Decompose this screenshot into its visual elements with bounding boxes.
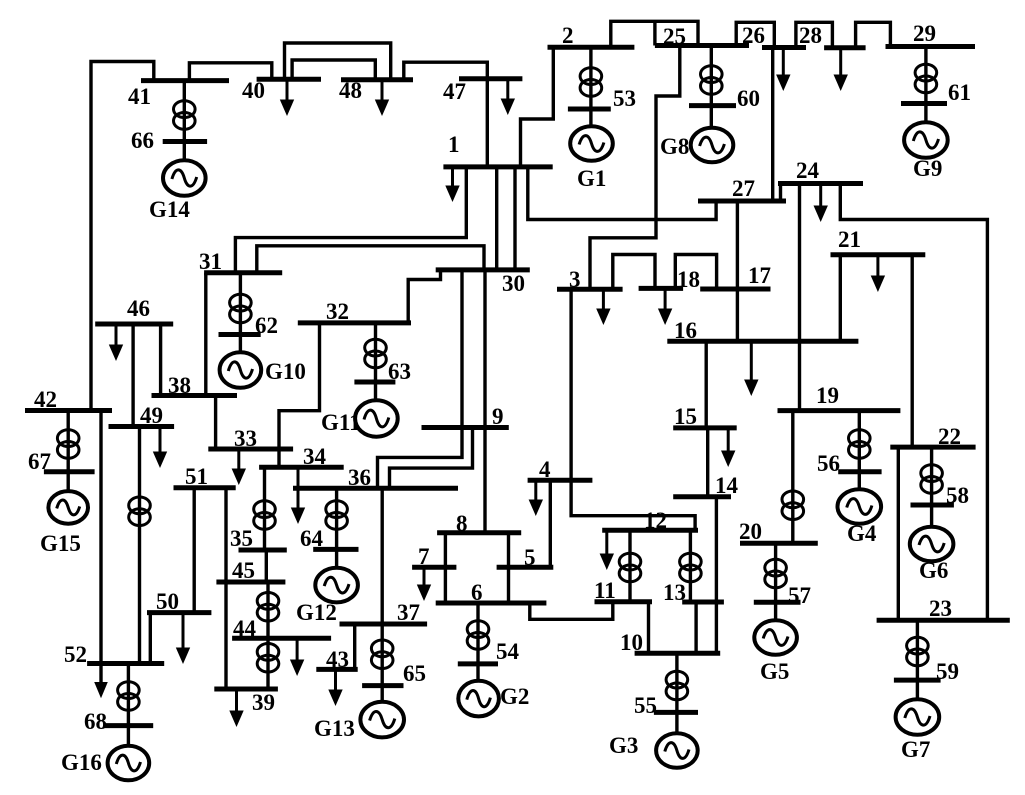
load arrow bus33: [232, 449, 246, 485]
wire 30-9-8 vertical: [483, 270, 486, 533]
svg-text:G16: G16: [61, 750, 102, 775]
svg-text:6: 6: [471, 580, 483, 605]
bus 54 bar: [458, 661, 498, 666]
wire 32-33-34 step: [279, 323, 320, 467]
svg-text:47: 47: [443, 79, 466, 104]
wire 2-53-G1 column: [589, 47, 592, 127]
wire 45-44 column: [266, 582, 269, 638]
svg-text:59: 59: [936, 659, 959, 684]
bus 45 bar: [216, 580, 285, 585]
wire 2-1 link: [521, 47, 554, 167]
load arrow bus40: [280, 79, 294, 116]
bus 67 bar: [44, 469, 95, 474]
bus 13 bar: [682, 600, 724, 605]
wire 21-22 vertical: [911, 255, 914, 447]
svg-text:28: 28: [799, 23, 822, 48]
generator G2: [458, 681, 499, 717]
svg-text:18: 18: [677, 267, 700, 292]
svg-text:10: 10: [620, 630, 643, 655]
bus 61 bar: [901, 101, 947, 106]
svg-text:60: 60: [737, 86, 760, 111]
wire 3-18 link: [613, 255, 655, 290]
wire 20-57-G5 column: [774, 543, 777, 621]
svg-text:33: 33: [234, 426, 257, 451]
bus 1 bar: [443, 164, 552, 169]
svg-text:23: 23: [929, 596, 952, 621]
transformer 62: [230, 294, 252, 323]
wire 12-11 column: [628, 530, 631, 601]
load arrow bus49: [153, 427, 167, 469]
load arrow bus43: [328, 669, 342, 706]
load arrow bus4: [529, 480, 543, 516]
wire 42-67-G15 column: [66, 411, 69, 493]
bus 31 bar: [204, 270, 282, 275]
wire 31-1 line: [235, 167, 466, 273]
generator G14: [163, 160, 206, 196]
wire 27-24 vertical: [779, 184, 782, 202]
load arrow bus1: [445, 167, 459, 202]
svg-text:2: 2: [562, 23, 574, 48]
bus 19 bar: [778, 408, 901, 413]
bus 65 bar: [362, 683, 403, 688]
wire 16-15 vertical: [705, 341, 708, 428]
svg-text:61: 61: [948, 80, 971, 105]
bus 29 bar: [886, 44, 976, 49]
transformer 65: [371, 640, 393, 669]
load arrow bus48: [375, 80, 389, 116]
bus 56 bar: [838, 469, 881, 474]
wire 29-61-G9 column: [924, 47, 927, 124]
svg-text:14: 14: [715, 473, 739, 498]
transformer 45-44: [257, 592, 279, 621]
bus 4 bar: [528, 478, 593, 483]
bus 6 bar: [436, 601, 547, 606]
transformer 55: [666, 671, 688, 700]
bus 68 bar: [104, 723, 154, 728]
bus 66 bar: [163, 139, 207, 144]
bus 14 bar: [673, 494, 731, 499]
transformer 53: [580, 68, 602, 97]
svg-text:12: 12: [644, 508, 667, 533]
bus 5 bar: [497, 565, 554, 570]
wire 32-63-G11 column: [374, 323, 377, 401]
wire 24-16-19 vertical: [798, 184, 801, 411]
svg-text:56: 56: [817, 451, 840, 476]
svg-text:G9: G9: [913, 156, 942, 181]
transformer 19-20: [782, 491, 804, 520]
transformer 63: [365, 339, 387, 368]
svg-text:21: 21: [838, 227, 861, 252]
wire 31-62-G10 column: [239, 273, 242, 353]
bus 59 bar: [894, 678, 941, 683]
bus 48 bar: [341, 77, 413, 82]
wire 12-13 column: [689, 530, 692, 602]
svg-text:40: 40: [242, 78, 265, 103]
svg-text:30: 30: [502, 271, 525, 296]
svg-text:46: 46: [127, 296, 150, 321]
wire 49-52 column: [138, 427, 141, 664]
wire 30-36 step: [378, 270, 463, 488]
wire 36-37-65-G13 column: [381, 488, 384, 702]
wire 41-42 corner + left vertical: [91, 62, 154, 411]
load arrow bus15: [721, 428, 735, 467]
bus 51 bar: [174, 485, 236, 490]
svg-text:49: 49: [140, 403, 163, 428]
bus 52 bar: [87, 661, 164, 666]
bus 64 bar: [313, 547, 358, 552]
wire 1-30 vertical b: [513, 167, 516, 270]
bus 47 bar: [459, 76, 522, 81]
wire 41-66-G14 column: [183, 81, 186, 161]
svg-text:9: 9: [492, 404, 504, 429]
svg-text:G7: G7: [901, 737, 930, 762]
wire 36-64-G12 column: [335, 488, 338, 568]
bus 16 bar: [667, 339, 858, 344]
wire 10-55-G3 column: [675, 653, 678, 733]
svg-text:G5: G5: [760, 659, 789, 684]
bus 40 bar: [257, 77, 321, 82]
svg-text:13: 13: [663, 580, 686, 605]
generator G1: [570, 126, 613, 161]
svg-text:51: 51: [185, 464, 208, 489]
load arrow bus50: [176, 613, 190, 664]
load arrow bus28: [834, 48, 848, 91]
svg-text:G13: G13: [314, 716, 355, 741]
svg-text:5: 5: [524, 545, 536, 570]
transformer 12-13: [680, 553, 702, 582]
generator G15: [48, 491, 88, 524]
svg-text:G1: G1: [577, 166, 606, 191]
svg-text:66: 66: [131, 128, 154, 153]
load arrow bus26: [776, 48, 790, 92]
load arrow bus47: [501, 79, 515, 115]
transformer 35: [254, 501, 276, 530]
load arrow bus39: [229, 689, 243, 727]
svg-text:4: 4: [539, 457, 551, 482]
svg-text:G4: G4: [847, 521, 877, 546]
bus 57 bar: [754, 600, 801, 605]
wire 11-10 vertical: [647, 602, 650, 654]
bus 20 bar: [740, 541, 818, 546]
load arrow bus52 head: [94, 682, 108, 698]
load arrow bus3: [596, 289, 610, 325]
wire 31-38 vertical: [204, 273, 207, 396]
generator G10: [220, 352, 262, 388]
svg-text:G3: G3: [609, 733, 638, 758]
svg-text:55: 55: [634, 693, 657, 718]
bus 18 bar: [639, 286, 684, 291]
bus 49 bar: [109, 424, 175, 429]
bus 10 bar: [635, 651, 721, 656]
svg-text:65: 65: [403, 661, 426, 686]
svg-text:29: 29: [913, 21, 936, 46]
load arrow bus18: [658, 288, 672, 325]
load arrow bus12: [600, 530, 614, 570]
svg-text:G11: G11: [321, 410, 361, 435]
wire 34-35 column: [263, 467, 266, 550]
bus 62 bar: [219, 332, 261, 337]
wire 13-10 vertical: [694, 602, 697, 653]
transformer 44-39: [257, 643, 279, 672]
bus 3 bar: [557, 287, 623, 292]
bus 26 bar: [762, 45, 806, 50]
bus 50 bar: [147, 610, 211, 615]
svg-text:41: 41: [128, 84, 151, 109]
wire 30-32 step: [408, 270, 440, 323]
svg-text:3: 3: [569, 267, 581, 292]
svg-text:32: 32: [326, 299, 349, 324]
bus 8 bar: [437, 530, 521, 535]
svg-text:G14: G14: [149, 197, 190, 222]
generator G9: [904, 122, 948, 158]
bus 60 bar: [689, 103, 736, 108]
wire 4-5 vertical: [549, 480, 552, 567]
bus 11 bar: [595, 599, 653, 604]
wire 26-28 link: [796, 22, 833, 47]
svg-text:G10: G10: [265, 359, 306, 384]
svg-text:24: 24: [796, 158, 820, 183]
wire 3-4-12 line: [571, 289, 695, 530]
wire 14-13-10 vertical: [715, 497, 718, 653]
bus 12 bar: [602, 528, 698, 533]
svg-text:17: 17: [748, 263, 771, 288]
wire 24-23 line: [840, 184, 987, 621]
generator G13: [360, 702, 404, 738]
bus 46 bar: [95, 322, 173, 327]
bus 55 bar: [654, 710, 698, 715]
svg-text:64: 64: [300, 526, 324, 551]
svg-text:20: 20: [739, 519, 762, 544]
bus 34 bar: [259, 465, 344, 470]
generator G8: [691, 128, 734, 163]
transformer 57: [765, 559, 787, 588]
bus 43 bar: [316, 667, 357, 672]
wire 40-48 outer link: [285, 43, 391, 80]
bus 37 bar: [340, 622, 428, 627]
svg-text:45: 45: [232, 558, 255, 583]
svg-text:15: 15: [674, 404, 697, 429]
generator G12: [315, 568, 358, 603]
bus 33 bar: [208, 447, 293, 452]
generator G6: [910, 527, 954, 562]
wire 51-50 vertical: [192, 488, 195, 613]
svg-text:G2: G2: [500, 684, 529, 709]
svg-text:1: 1: [448, 132, 460, 157]
wire 8-7-6 vertical: [444, 533, 447, 603]
transformer 68: [118, 682, 140, 711]
svg-text:G12: G12: [296, 600, 337, 625]
svg-text:G15: G15: [40, 531, 81, 556]
svg-text:25: 25: [663, 24, 686, 49]
transformer 54: [467, 621, 489, 650]
wire 1-30 vertical a: [495, 167, 498, 270]
bus 17 bar: [700, 287, 770, 292]
bus 27 bar: [698, 199, 786, 204]
svg-text:52: 52: [64, 642, 87, 667]
wire 22-58-G6 column: [930, 447, 933, 527]
wire 8-5-6 vertical: [507, 533, 510, 603]
svg-text:62: 62: [255, 313, 278, 338]
bus 23 bar: [877, 618, 1010, 623]
wire 41-40 link: [189, 63, 271, 81]
transformer 12-11: [619, 553, 641, 582]
transformer 59: [907, 637, 929, 666]
wire 25-26 link: [736, 22, 774, 47]
svg-text:67: 67: [28, 449, 51, 474]
wire 51-45-39 vertical: [224, 488, 227, 689]
wire 19-20 column: [791, 411, 794, 544]
wire 2-25 link: [611, 21, 698, 47]
wire 48-47-1 link: [404, 62, 488, 167]
wire 31-30 line: [257, 246, 484, 273]
wire 46-38 vertical: [159, 324, 162, 396]
bus 39 bar: [214, 687, 278, 692]
bus 38 bar: [152, 393, 238, 398]
svg-text:34: 34: [303, 444, 327, 469]
load arrow bus34: [291, 467, 305, 524]
wire 28-29 link: [856, 22, 891, 47]
svg-text:54: 54: [496, 639, 520, 664]
wire 44-39 column: [266, 638, 269, 689]
bus 22 bar: [890, 445, 975, 450]
svg-text:7: 7: [418, 544, 430, 569]
bus 7 bar: [412, 565, 456, 570]
generator G7: [896, 699, 940, 735]
svg-text:G8: G8: [660, 134, 689, 159]
svg-text:19: 19: [816, 383, 839, 408]
bus 44 bar: [232, 636, 331, 641]
transformer 58: [921, 465, 943, 494]
wire 27-17-16 vertical: [736, 201, 739, 341]
wire 42-52 vertical + load: [99, 411, 102, 683]
load arrow bus44: [290, 638, 304, 676]
svg-text:68: 68: [84, 709, 107, 734]
load arrow bus46: [109, 324, 123, 361]
svg-text:31: 31: [199, 249, 222, 274]
bus 32 bar: [298, 320, 411, 325]
generator G3: [656, 733, 698, 768]
bus 36 bar: [293, 486, 458, 491]
generator G5: [754, 620, 797, 655]
wire 40-48 inner link: [292, 60, 375, 80]
wire 9-36 step: [390, 428, 473, 489]
wire 25 box left: [653, 21, 656, 45]
transformer 64: [326, 501, 348, 530]
bus 58 bar: [911, 503, 954, 508]
bus 30 bar: [436, 267, 530, 272]
generator G16: [108, 746, 150, 781]
svg-text:44: 44: [233, 616, 257, 641]
wire 15-14 vertical: [706, 428, 709, 497]
transformer 49-52: [129, 497, 151, 526]
load arrow bus21: [871, 255, 885, 292]
wire 19-56-G4 column: [858, 411, 861, 490]
svg-text:39: 39: [252, 690, 275, 715]
generator G4: [838, 489, 882, 524]
bus 21 bar: [831, 252, 926, 257]
bus 2 bar: [548, 45, 635, 50]
bus 9 bar: [422, 425, 509, 430]
wire 6-54-G2 column: [476, 603, 479, 682]
svg-text:63: 63: [388, 359, 411, 384]
load arrow bus24: [814, 184, 828, 223]
generator G11: [355, 400, 398, 436]
load arrow bus7: [417, 567, 431, 601]
svg-text:58: 58: [946, 483, 969, 508]
svg-text:8: 8: [456, 511, 468, 536]
wire 26-27 vertical: [771, 48, 774, 202]
transformer 67: [57, 430, 79, 459]
svg-text:27: 27: [732, 176, 755, 201]
svg-text:G6: G6: [919, 558, 948, 583]
wire 38-33 vertical: [214, 396, 217, 450]
wire 6-11 link: [530, 602, 613, 620]
wire 46-49 vertical: [131, 324, 134, 427]
svg-text:53: 53: [613, 86, 636, 111]
wire 50-52 vertical: [149, 613, 152, 664]
wire 25-60-G8 column: [710, 46, 713, 129]
bus 53 bar: [568, 107, 611, 112]
bus 28 bar: [824, 45, 866, 50]
svg-text:50: 50: [156, 589, 179, 614]
svg-text:57: 57: [788, 583, 811, 608]
transformer 60: [701, 66, 723, 95]
svg-text:37: 37: [397, 600, 420, 625]
transformer 66: [174, 101, 196, 130]
bus 25 bar: [655, 43, 749, 48]
svg-text:11: 11: [594, 578, 616, 603]
svg-text:36: 36: [348, 465, 371, 490]
svg-text:42: 42: [34, 387, 57, 412]
wire 35-45 vertical: [265, 550, 268, 582]
bus 15 bar: [673, 425, 737, 430]
wire 23-59-G7 column: [916, 620, 919, 700]
wire 37-43 vertical: [353, 624, 356, 669]
svg-text:43: 43: [326, 647, 349, 672]
transformer 61: [915, 64, 937, 93]
svg-text:26: 26: [742, 23, 765, 48]
svg-text:48: 48: [339, 78, 362, 103]
wire 1-27 line: [528, 167, 716, 220]
wire 21-16 vertical: [839, 255, 842, 341]
wire 22-23 vertical: [897, 447, 900, 620]
load arrow bus16: [744, 341, 758, 396]
transformer 56: [849, 430, 871, 459]
wire 25-3 line: [590, 46, 680, 290]
svg-text:38: 38: [168, 373, 191, 398]
bus 42 bar: [25, 408, 112, 413]
bus 63 bar: [354, 380, 395, 385]
svg-text:35: 35: [230, 526, 253, 551]
svg-text:16: 16: [674, 318, 697, 343]
wire 52-68-G16 column: [127, 664, 130, 747]
bus 24 bar: [778, 181, 863, 186]
wire 18-17 link: [675, 255, 716, 290]
svg-text:22: 22: [938, 424, 961, 449]
bus 35 bar: [239, 548, 287, 553]
bus 41 bar: [141, 78, 229, 83]
